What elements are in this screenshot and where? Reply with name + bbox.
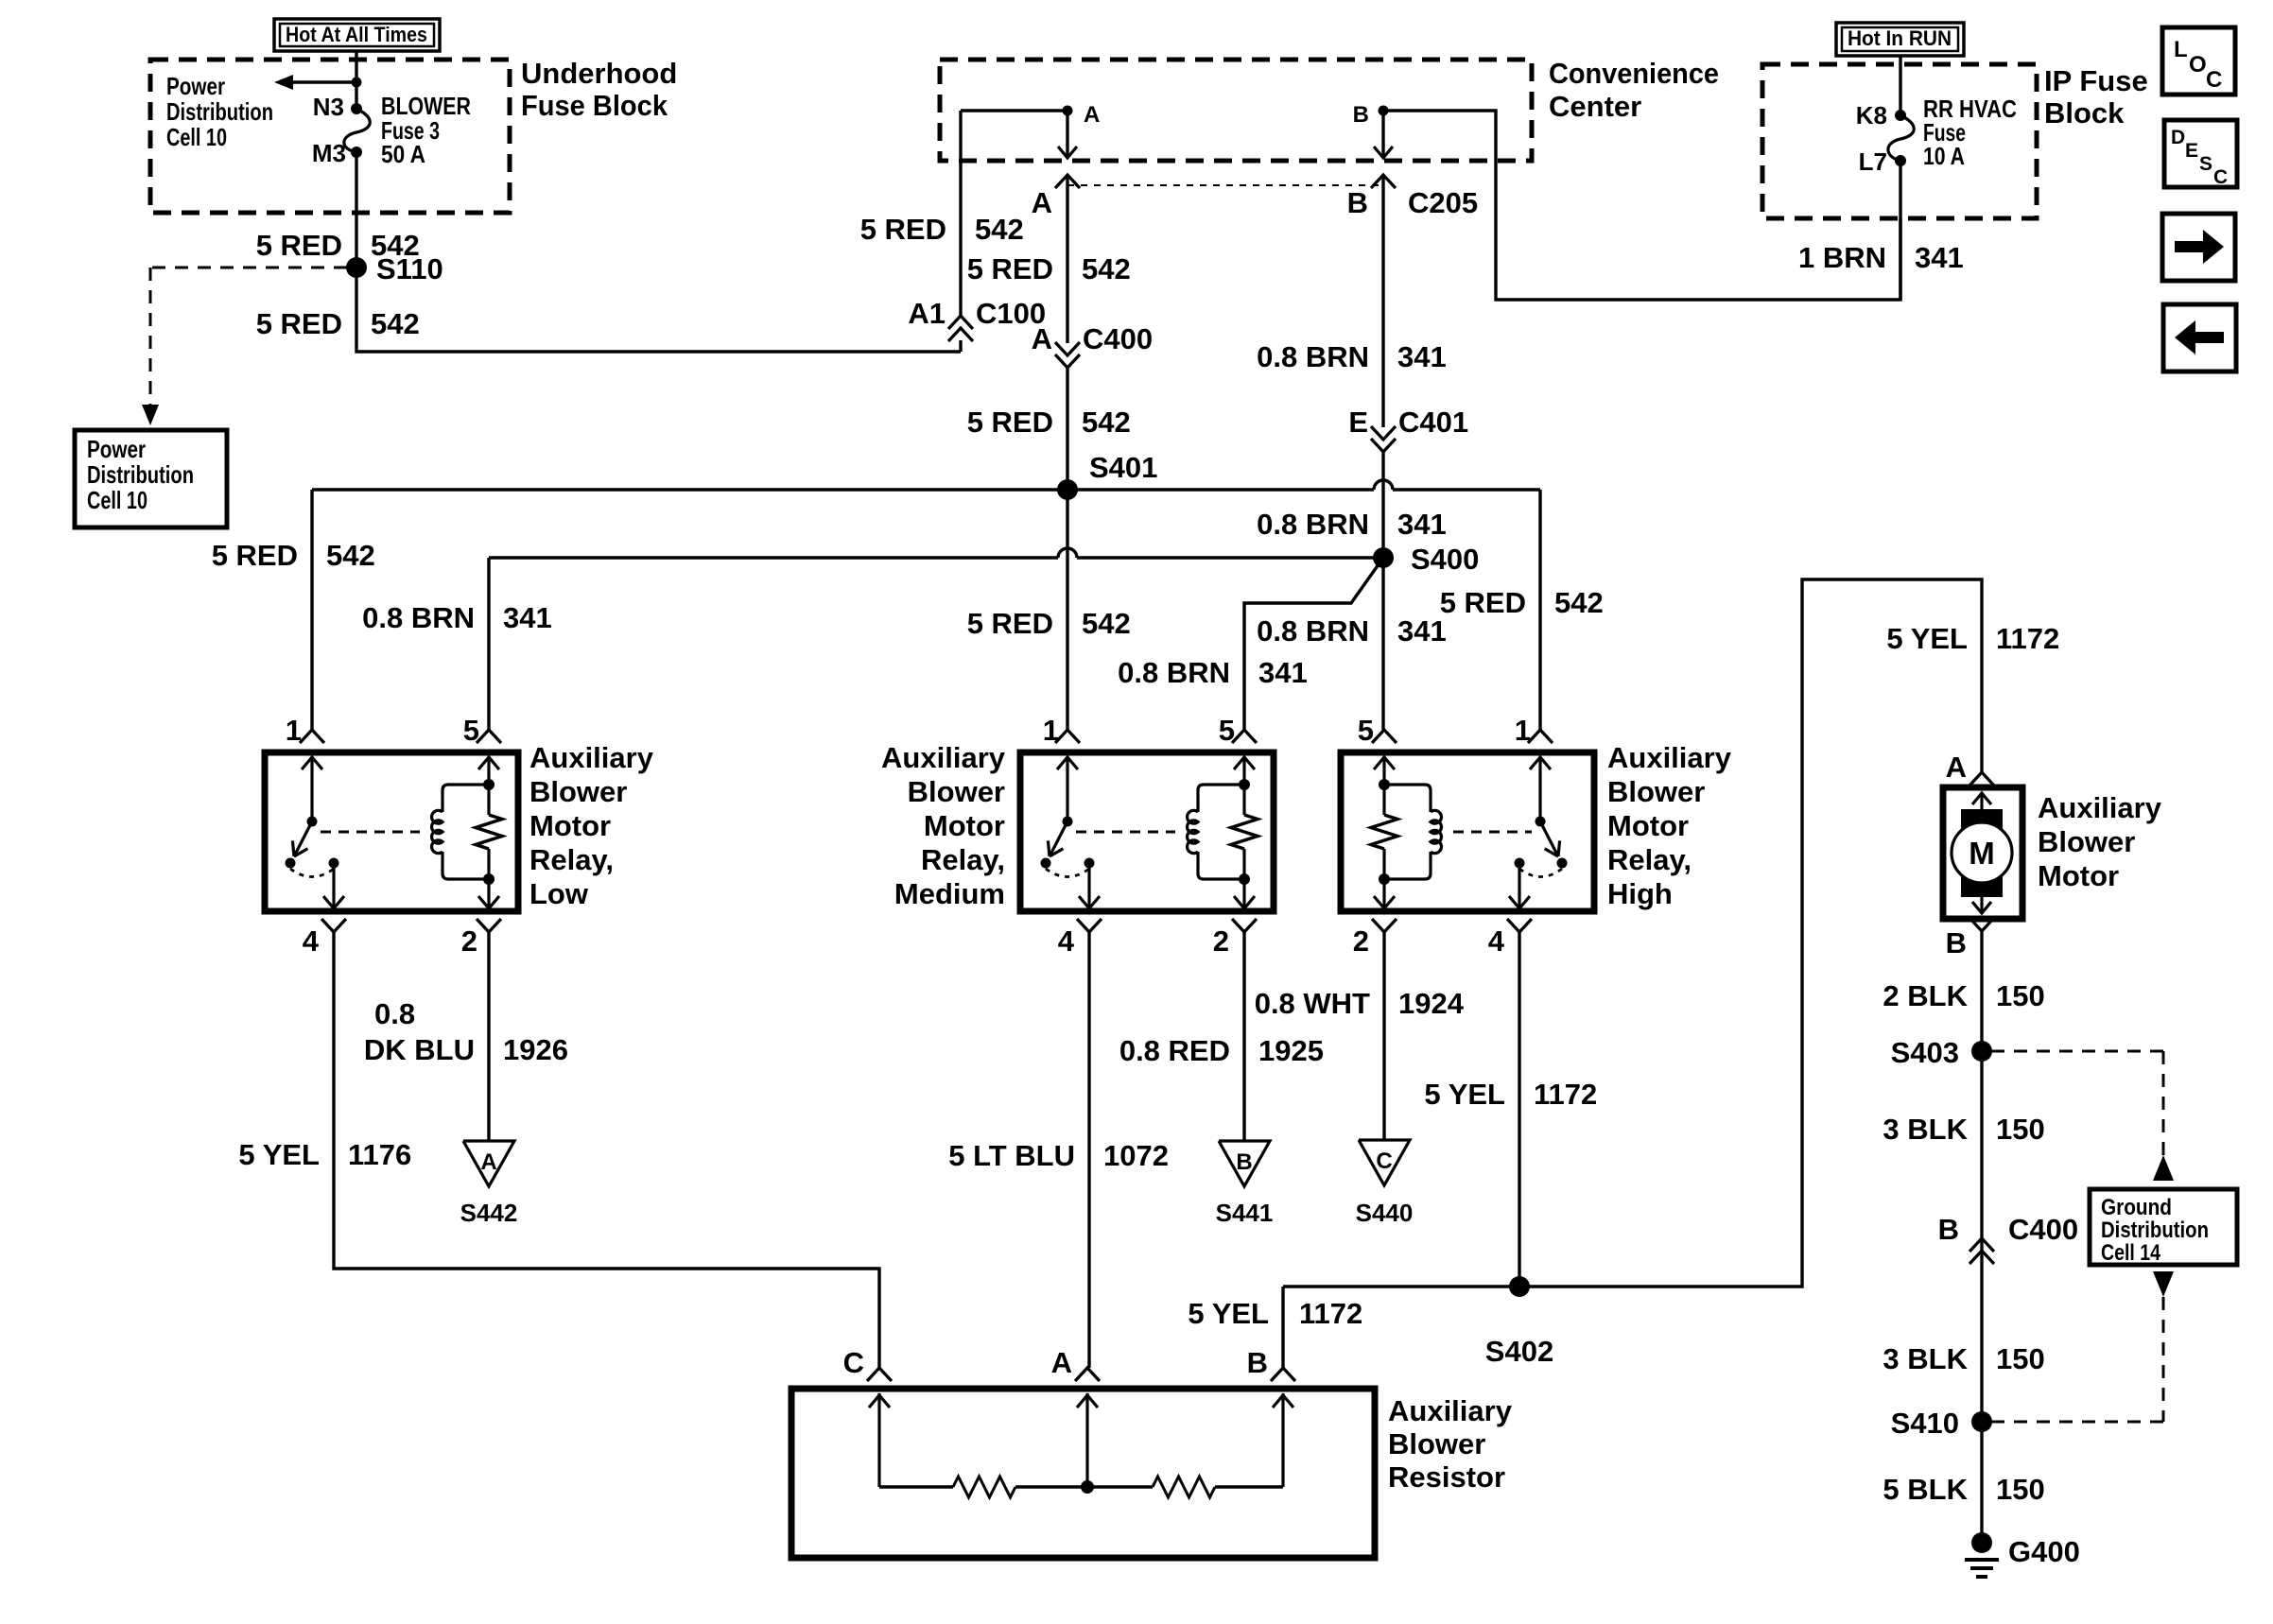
svg-text:C: C [843, 1346, 864, 1379]
svg-text:E: E [2185, 140, 2198, 162]
svg-text:10 A: 10 A [1923, 142, 1965, 170]
svg-text:M: M [1969, 836, 1995, 871]
svg-text:150: 150 [1996, 1473, 2045, 1506]
svg-text:1926: 1926 [503, 1033, 568, 1066]
label: 0.8 BRN 341 (relay High pin 5) [1257, 614, 1447, 648]
arrow to Power Distribution Cell 10 [274, 75, 362, 90]
svg-text:Hot In RUN: Hot In RUN [1848, 26, 1952, 50]
splice S400 [1373, 543, 1479, 576]
svg-text:1925: 1925 [1258, 1034, 1324, 1067]
label box: Hot In RUN [1836, 23, 1964, 56]
legend box: next arrow [2162, 214, 2235, 281]
label: 0.8 DK BLU 1926 [364, 997, 568, 1066]
svg-text:3 BLK: 3 BLK [1883, 1342, 1968, 1375]
splice S401 [1057, 451, 1157, 500]
svg-text:341: 341 [1915, 241, 1964, 274]
value: RR HVAC Fuse 10 A [1923, 95, 2017, 170]
legend box: previous arrow [2163, 304, 2236, 371]
wire: motor pin B down to G400 [1980, 931, 1983, 1543]
svg-text:5: 5 [463, 714, 479, 747]
wire: node B down to C205 [1374, 111, 1393, 158]
pin K8 [1856, 101, 1887, 130]
svg-text:Relay,: Relay, [921, 843, 1005, 876]
label: 0.8 BRN 341 (above C401) [1257, 340, 1447, 373]
svg-text:341: 341 [503, 601, 552, 634]
wire: S400 bus left drop to relay Low pin 5 [487, 558, 490, 730]
value: BLOWER Fuse 3 50 A [381, 92, 471, 168]
labels: C205 pins A / B [1032, 186, 1479, 219]
svg-text:C: C [2213, 166, 2228, 188]
connector C205 dashed tie [1067, 184, 1383, 186]
svg-text:Fuse Block: Fuse Block [521, 89, 668, 122]
label: 5 RED 542 (below S110) [256, 307, 420, 340]
svg-text:C: C [2206, 67, 2222, 93]
wire: relay Low pin 4 to resistor pin C (5 YEL 1176) [334, 932, 879, 1368]
svg-text:Power: Power [166, 72, 225, 100]
IP fuse block dashed box [1762, 64, 2037, 218]
svg-text:542: 542 [326, 539, 375, 572]
dashed wire: S403 to Ground Distribution Cell 14 [1991, 1051, 2174, 1181]
motor: Auxiliary Blower Motor [1943, 772, 2022, 931]
pin N3 [313, 93, 344, 121]
label: 3 BLK 150 (above C400) [1883, 1113, 2044, 1146]
svg-text:Auxiliary: Auxiliary [1388, 1394, 1513, 1427]
svg-text:Underhood: Underhood [521, 57, 677, 90]
svg-text:Distribution: Distribution [87, 460, 194, 489]
svg-text:A: A [480, 1149, 496, 1175]
svg-text:Cell 10: Cell 10 [166, 123, 227, 151]
wire: fuse M3 down to S110 [355, 152, 357, 268]
wire: S401 down to relay Medium pin 1 (5 RED 542) [1066, 490, 1068, 730]
svg-text:C205: C205 [1408, 186, 1478, 219]
ref box: Power Distribution Cell 10 [75, 430, 227, 527]
svg-text:S400: S400 [1411, 543, 1479, 576]
svg-text:341: 341 [1258, 656, 1308, 689]
svg-text:5 YEL: 5 YEL [238, 1138, 320, 1171]
wire: resistor pin B leg [1281, 1287, 1284, 1368]
label: 0.8 RED 1925 [1119, 1034, 1324, 1067]
svg-text:1172: 1172 [1996, 622, 2059, 655]
resistor pin letters C A B [843, 1346, 1268, 1379]
wire: relay Medium pin 2 to ground ref B (0.8 RED 1925) [1242, 932, 1245, 1141]
svg-text:0.8 BRN: 0.8 BRN [1257, 340, 1369, 373]
svg-text:Block: Block [2044, 96, 2125, 130]
label: 0.8 BRN 341 (relay Low pin 5) [362, 601, 552, 634]
dashed wire: Ground Distribution Cell 14 to S410 [1991, 1271, 2174, 1422]
svg-text:Auxiliary: Auxiliary [881, 741, 1006, 774]
wire: S400 jog to relay Medium pin 5 [1244, 558, 1383, 730]
label: 5 RED 542 (relay High pin 1) [1440, 586, 1604, 619]
pin numbers relay Medium [1043, 714, 1235, 958]
svg-text:Cell 10: Cell 10 [87, 486, 147, 514]
svg-text:B: B [1347, 186, 1368, 219]
label: 3 BLK 150 (below C400) [1883, 1342, 2044, 1375]
svg-text:S: S [2199, 153, 2212, 175]
wire: Hot In RUN feed [1899, 56, 1901, 115]
svg-text:B: B [1353, 102, 1369, 128]
svg-text:5 LT BLU: 5 LT BLU [948, 1139, 1075, 1172]
svg-text:A: A [1051, 1346, 1072, 1379]
label: 0.8 WHT 1924 [1255, 987, 1465, 1020]
splice S410 [1891, 1407, 1992, 1440]
svg-text:542: 542 [1082, 252, 1131, 285]
svg-text:Distribution: Distribution [2101, 1218, 2209, 1243]
pin M3 [312, 139, 346, 167]
svg-text:IP Fuse: IP Fuse [2044, 64, 2148, 97]
svg-text:0.8 BRN: 0.8 BRN [1257, 614, 1369, 648]
label: 5 RED 542 (above C400) [967, 252, 1131, 285]
svg-text:Auxiliary: Auxiliary [2038, 791, 2162, 824]
svg-text:A: A [1084, 102, 1100, 128]
pin numbers relay Low [286, 714, 479, 958]
svg-text:341: 341 [1397, 614, 1447, 648]
connector C400 pin A [1032, 322, 1154, 368]
connector C100 pin A1 [908, 297, 1046, 352]
label: Auxiliary Blower Motor Relay, Medium [881, 741, 1006, 910]
label: 5 RED 542 (relay Low pin 1) [212, 539, 375, 572]
svg-text:O: O [2189, 52, 2207, 78]
wire: node A down to C205 [1058, 111, 1077, 158]
svg-text:4: 4 [303, 924, 320, 958]
svg-text:150: 150 [1996, 1113, 2045, 1146]
fuse RR HVAC Fuse 10 A [1888, 110, 1914, 166]
label: 5 YEL 1172 (motor feed) [1886, 622, 2059, 655]
svg-text:5 RED: 5 RED [860, 213, 946, 246]
label: Power Distribution Cell 10 (in underhood box) [166, 72, 273, 151]
svg-text:DK BLU: DK BLU [364, 1033, 475, 1066]
svg-text:C401: C401 [1398, 406, 1468, 439]
label: Auxiliary Blower Motor Relay, Low [529, 741, 654, 910]
wire: S401 bus left drop to relay Low pin 1 [310, 490, 313, 730]
underhood fuse block dashed box [150, 60, 510, 213]
svg-text:Blower: Blower [1607, 775, 1705, 808]
svg-text:Motor: Motor [924, 809, 1005, 842]
label: 5 YEL 1172 (relay High pin 4) [1424, 1078, 1597, 1111]
splice S402 [1485, 1276, 1553, 1368]
motor pin A [1946, 751, 1967, 784]
svg-text:Distribution: Distribution [166, 97, 273, 126]
svg-text:5 RED: 5 RED [256, 307, 342, 340]
connector C401 pin E [1348, 406, 1468, 452]
svg-text:Relay,: Relay, [529, 843, 614, 876]
svg-text:0.8 BRN: 0.8 BRN [362, 601, 475, 634]
label: 5 RED 542 (above S110) [256, 229, 420, 262]
wire: S400 down to relay High pin 5 (0.8 BRN 341) [1381, 558, 1384, 730]
svg-text:341: 341 [1397, 340, 1447, 373]
svg-text:Auxiliary: Auxiliary [529, 741, 654, 774]
svg-text:1: 1 [1515, 714, 1531, 747]
wire: node B to IP fuse block (1 BRN 341) [1383, 111, 1900, 300]
label: 5 LT BLU 1072 [948, 1139, 1169, 1172]
label: 2 BLK 150 [1883, 979, 2044, 1012]
svg-text:D: D [2171, 127, 2185, 148]
svg-text:542: 542 [975, 213, 1024, 246]
svg-text:1924: 1924 [1398, 987, 1465, 1020]
svg-text:Blower: Blower [908, 775, 1005, 808]
svg-text:1: 1 [1043, 714, 1059, 747]
svg-text:5 BLK: 5 BLK [1883, 1473, 1968, 1506]
svg-text:542: 542 [1082, 607, 1131, 640]
svg-text:Motor: Motor [529, 809, 611, 842]
svg-text:0.8 RED: 0.8 RED [1119, 1034, 1230, 1067]
convenience center dashed box [940, 60, 1532, 161]
svg-text:542: 542 [371, 307, 420, 340]
wire: relay Medium pin 4 to resistor pin A (5 LT BLU 1072) [1087, 932, 1090, 1368]
svg-text:Relay,: Relay, [1607, 843, 1692, 876]
connector C205 pin B [1371, 175, 1396, 188]
svg-text:S403: S403 [1891, 1036, 1959, 1069]
pin L7 [1859, 147, 1887, 176]
svg-text:Power: Power [87, 435, 146, 463]
wire: C400 down to S401 (5 RED 542) [1066, 368, 1068, 490]
wire: relay Low pin 2 to ground ref A (0.8 DK BLU 1926) [487, 932, 490, 1141]
label: Auxiliary Blower Motor Relay, High [1607, 741, 1732, 910]
wire: C205-A down to C400 (5 RED 542) [1066, 175, 1068, 343]
svg-text:High: High [1607, 877, 1673, 910]
label box: Hot At All Times [274, 19, 440, 51]
wire: S402 bus to motor riser [1283, 579, 1982, 1287]
svg-text:Resistor: Resistor [1388, 1460, 1505, 1494]
connector C400 pin B [1938, 1213, 2079, 1264]
svg-text:A: A [1032, 322, 1052, 355]
svg-text:Cell 14: Cell 14 [2101, 1240, 2161, 1266]
ground ref triangle A / S442 [460, 1141, 518, 1227]
splice S110 [346, 252, 443, 285]
legend box: LOC [2162, 27, 2235, 95]
label: 0.8 BRN 341 (above S400) [1257, 508, 1447, 541]
relay: Auxiliary Blower Motor Relay, High [1341, 730, 1594, 932]
wire: convenience center bus to node A [961, 109, 1067, 112]
svg-text:Motor: Motor [1607, 809, 1689, 842]
svg-text:C: C [1376, 1149, 1392, 1174]
svg-text:1176: 1176 [348, 1138, 411, 1171]
svg-text:0.8 BRN: 0.8 BRN [1257, 508, 1369, 541]
svg-text:150: 150 [1996, 1342, 2045, 1375]
wire: riser to C100 (5 RED 542) [959, 111, 962, 316]
svg-text:E: E [1348, 406, 1368, 439]
label: 5 RED 542 (relay Medium pin 1) [967, 607, 1131, 640]
svg-text:Motor: Motor [2038, 859, 2119, 892]
svg-text:0.8 WHT: 0.8 WHT [1255, 987, 1370, 1020]
node A (convenience center) [1063, 102, 1101, 128]
svg-text:4: 4 [1488, 924, 1505, 958]
relay: Auxiliary Blower Motor Relay, Low [265, 730, 518, 932]
svg-text:1172: 1172 [1299, 1297, 1362, 1330]
ground G400 [1965, 1532, 2080, 1577]
svg-text:B: B [1247, 1346, 1268, 1379]
svg-text:341: 341 [1397, 508, 1447, 541]
svg-text:2: 2 [1213, 924, 1229, 958]
svg-text:A: A [1032, 186, 1052, 219]
svg-text:S410: S410 [1891, 1407, 1959, 1440]
svg-text:Blower: Blower [529, 775, 627, 808]
wire: S401 bus right drop to relay High pin 1 [1538, 490, 1541, 730]
label: 5 YEL 1176 [238, 1138, 411, 1171]
svg-text:5 YEL: 5 YEL [1886, 622, 1968, 655]
svg-text:M3: M3 [312, 139, 346, 167]
label: Underhood Fuse Block [521, 57, 677, 122]
svg-text:Medium: Medium [894, 877, 1005, 910]
svg-text:A1: A1 [908, 297, 946, 330]
svg-text:5: 5 [1219, 714, 1235, 747]
svg-text:S442: S442 [460, 1199, 518, 1227]
dashed wire: S110 to Power Distribution Cell 10 [142, 268, 347, 425]
svg-text:K8: K8 [1856, 101, 1887, 130]
label: Auxiliary Blower Resistor [1388, 1394, 1513, 1494]
connector C205 pin A [1055, 175, 1080, 188]
label: 5 YEL 1172 (resistor pin B leg) [1188, 1297, 1362, 1330]
svg-text:G400: G400 [2008, 1535, 2080, 1568]
svg-text:L: L [2174, 37, 2188, 62]
svg-text:C400: C400 [2008, 1213, 2078, 1246]
wire: fuse L7 down (1 BRN 341) [1899, 161, 1901, 300]
svg-text:5 RED: 5 RED [256, 229, 342, 262]
svg-text:2: 2 [461, 924, 477, 958]
pin numbers relay High [1353, 714, 1531, 958]
svg-text:B: B [1946, 926, 1967, 959]
svg-text:2: 2 [1353, 924, 1369, 958]
ground ref triangle B / S441 [1216, 1141, 1274, 1227]
relay: Auxiliary Blower Motor Relay, Medium [1020, 730, 1274, 932]
svg-text:5 RED: 5 RED [967, 406, 1053, 439]
svg-text:4: 4 [1058, 924, 1075, 958]
svg-text:5 RED: 5 RED [212, 539, 298, 572]
svg-text:S401: S401 [1089, 451, 1157, 484]
wire: C205-B down to C401 (0.8 BRN 341) [1381, 175, 1384, 427]
svg-text:5 RED: 5 RED [967, 252, 1053, 285]
svg-text:5: 5 [1358, 714, 1374, 747]
svg-text:3 BLK: 3 BLK [1883, 1113, 1968, 1146]
svg-text:5 YEL: 5 YEL [1188, 1297, 1269, 1330]
svg-text:5 RED: 5 RED [967, 607, 1053, 640]
wire: relay High pin 4 down to S402 (5 YEL 1172) [1518, 932, 1520, 1287]
fuse BLOWER Fuse 3 50 A [344, 103, 370, 158]
node B (convenience center) [1353, 102, 1389, 128]
svg-text:1072: 1072 [1103, 1139, 1169, 1172]
svg-text:5 YEL: 5 YEL [1424, 1078, 1505, 1111]
svg-text:B: B [1938, 1213, 1959, 1246]
svg-text:1: 1 [286, 714, 302, 747]
svg-text:Low: Low [529, 877, 589, 910]
svg-text:S110: S110 [376, 252, 443, 285]
label: 5 RED 542 (above S401) [967, 406, 1131, 439]
svg-text:0.8: 0.8 [374, 997, 415, 1030]
wire: S110 down and right to C100 [356, 268, 961, 352]
wire: relay High pin 2 to ground ref C (0.8 WHT 1924) [1382, 932, 1385, 1140]
svg-text:L7: L7 [1859, 147, 1887, 176]
ground ref triangle C / S440 [1356, 1140, 1414, 1227]
svg-text:Hot At All Times: Hot At All Times [286, 23, 427, 46]
label: 5 RED 542 (riser) [860, 213, 1024, 246]
wire: S400 bus with hop (0.8 BRN 341) [489, 548, 1383, 558]
svg-text:Auxiliary: Auxiliary [1607, 741, 1732, 774]
wire: Hot At All Times feed into fuse block [355, 51, 357, 109]
svg-text:542: 542 [1082, 406, 1131, 439]
label: 5 BLK 150 [1883, 1473, 2044, 1506]
svg-text:N3: N3 [313, 93, 344, 121]
svg-text:0.8 BRN: 0.8 BRN [1118, 656, 1230, 689]
svg-text:5 RED: 5 RED [1440, 586, 1526, 619]
label: IP Fuse Block [2044, 64, 2148, 130]
label: Convenience Center [1549, 57, 1719, 123]
legend box: DESC [2164, 120, 2237, 188]
label: Auxiliary Blower Motor [2038, 791, 2162, 892]
svg-text:Center: Center [1549, 90, 1641, 123]
svg-text:B: B [1236, 1149, 1252, 1175]
resistor block: Auxiliary Blower Resistor [791, 1368, 1375, 1558]
label: 1 BRN 341 [1798, 241, 1964, 274]
svg-text:1 BRN: 1 BRN [1798, 241, 1886, 274]
svg-text:S441: S441 [1216, 1199, 1274, 1227]
svg-text:Blower: Blower [2038, 825, 2135, 858]
svg-text:Ground: Ground [2101, 1195, 2172, 1220]
svg-text:A: A [1946, 751, 1967, 784]
svg-text:Blower: Blower [1388, 1427, 1485, 1460]
ref box: Ground Distribution Cell 14 [2090, 1189, 2237, 1266]
wire: C401 down to S400 (0.8 BRN 341) [1381, 452, 1384, 558]
svg-text:S402: S402 [1485, 1335, 1553, 1368]
svg-text:2 BLK: 2 BLK [1883, 979, 1968, 1012]
svg-text:Convenience: Convenience [1549, 57, 1719, 90]
svg-text:50 A: 50 A [381, 140, 425, 168]
splice S403 [1891, 1036, 1992, 1069]
motor pin B [1946, 926, 1967, 959]
svg-text:1172: 1172 [1534, 1078, 1597, 1111]
svg-text:C400: C400 [1083, 322, 1153, 355]
svg-text:542: 542 [1554, 586, 1604, 619]
label: 0.8 BRN 341 (relay Medium pin 5) [1118, 656, 1308, 689]
wire: S401 bus with hop (5 RED 542) [312, 480, 1540, 490]
svg-text:S440: S440 [1356, 1199, 1414, 1227]
svg-text:150: 150 [1996, 979, 2045, 1012]
